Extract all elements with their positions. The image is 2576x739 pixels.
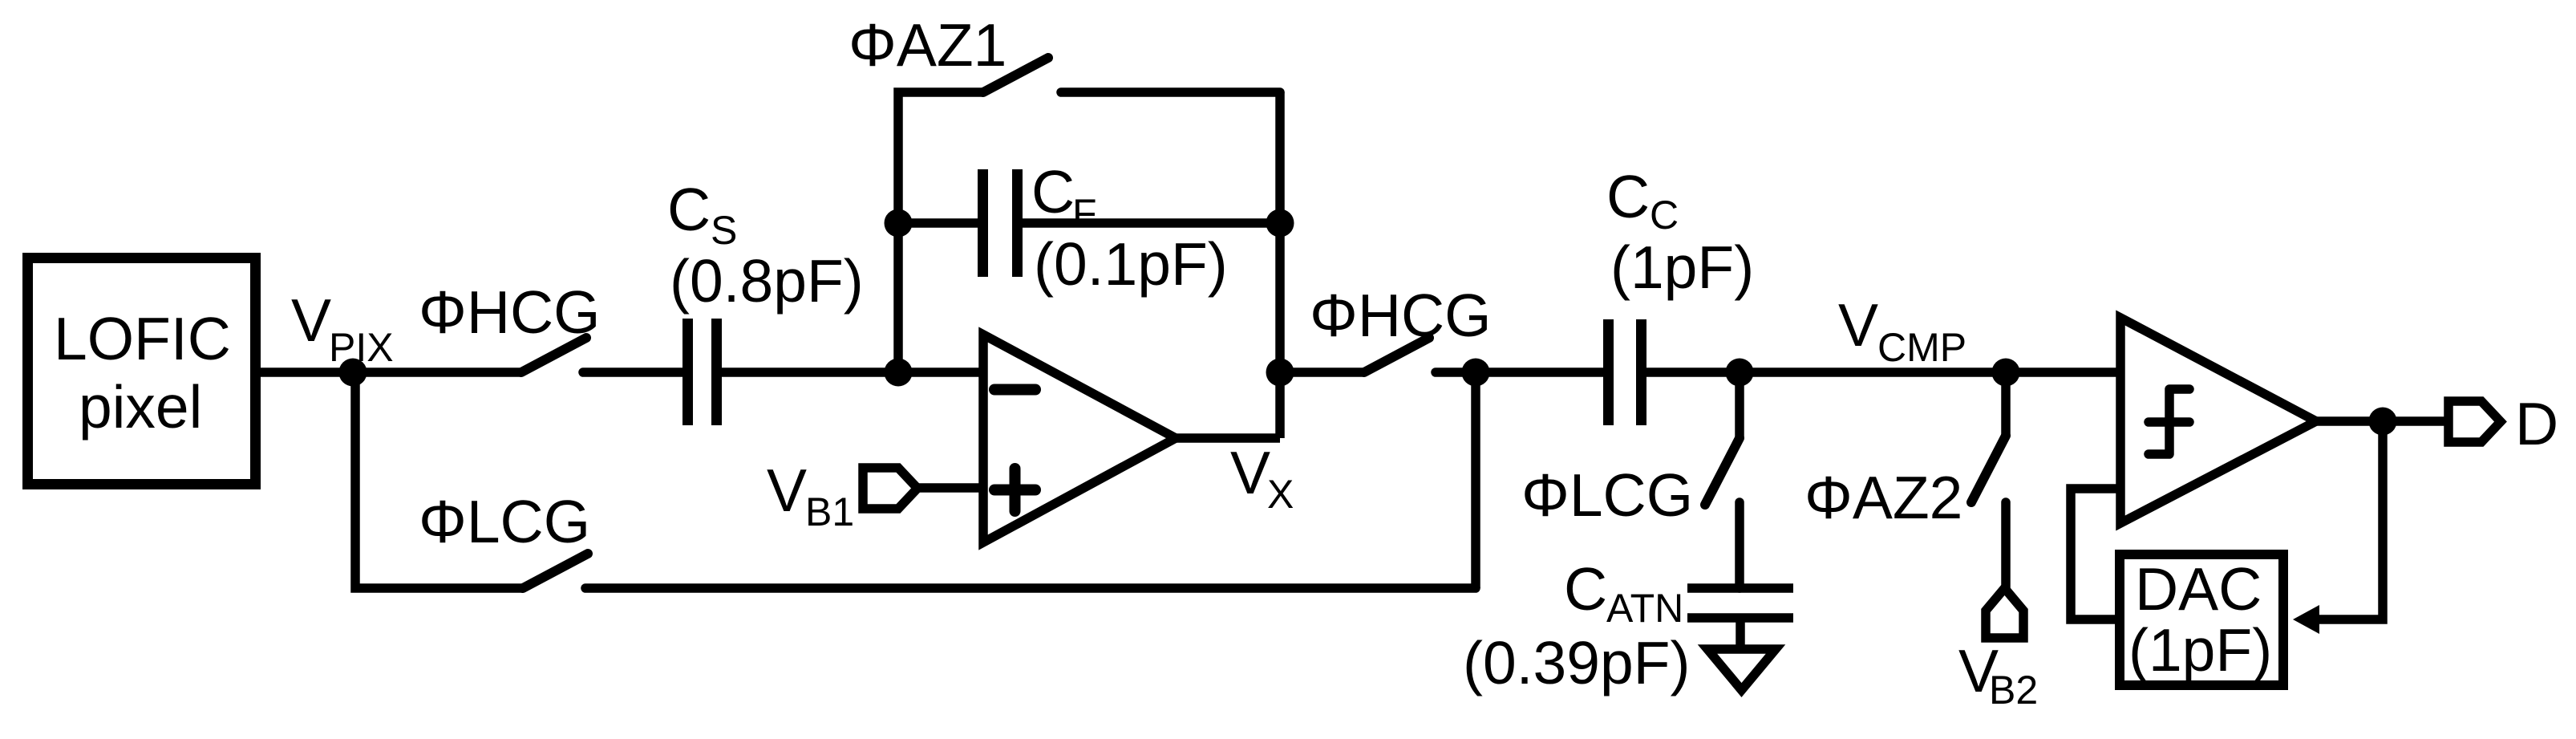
- svg-text:ΦLCG: ΦLCG: [1521, 461, 1693, 529]
- svg-text:ΦAZ2: ΦAZ2: [1804, 464, 1962, 531]
- svg-text:C: C: [1031, 158, 1075, 225]
- svg-text:B1: B1: [805, 489, 854, 534]
- svg-text:(0.1pF): (0.1pF): [1034, 230, 1228, 298]
- svg-text:V: V: [767, 457, 807, 524]
- svg-text:B2: B2: [1989, 668, 2038, 713]
- svg-text:C: C: [1650, 193, 1679, 238]
- svg-text:ΦAZ1: ΦAZ1: [849, 11, 1007, 79]
- svg-text:ΦHCG: ΦHCG: [419, 278, 601, 346]
- svg-text:V: V: [1838, 291, 1878, 359]
- svg-text:C: C: [1606, 163, 1650, 230]
- svg-text:C: C: [1564, 555, 1607, 623]
- svg-text:(1pF): (1pF): [2128, 616, 2272, 684]
- svg-text:pixel: pixel: [79, 373, 202, 441]
- svg-text:(1pF): (1pF): [1610, 233, 1754, 301]
- svg-text:DAC: DAC: [2135, 555, 2262, 623]
- svg-text:ΦHCG: ΦHCG: [1310, 282, 1492, 349]
- svg-text:S: S: [711, 208, 737, 253]
- svg-text:ATN: ATN: [1606, 586, 1683, 631]
- svg-text:LOFIC: LOFIC: [54, 305, 231, 372]
- svg-text:(0.39pF): (0.39pF): [1463, 629, 1690, 696]
- svg-text:PIX: PIX: [329, 325, 394, 370]
- svg-text:D: D: [2515, 390, 2558, 457]
- svg-text:CMP: CMP: [1877, 325, 1966, 370]
- svg-text:C: C: [667, 176, 711, 243]
- svg-text:(0.8pF): (0.8pF): [670, 247, 864, 315]
- svg-text:F: F: [1072, 191, 1097, 236]
- svg-text:V: V: [1230, 439, 1270, 506]
- svg-text:V: V: [291, 286, 331, 354]
- svg-text:ΦLCG: ΦLCG: [419, 488, 590, 555]
- svg-text:X: X: [1267, 472, 1294, 517]
